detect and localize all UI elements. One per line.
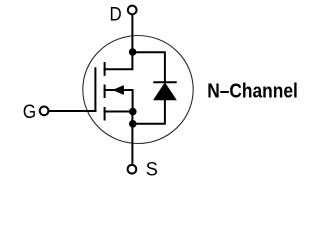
diode bottom wire [133, 99, 165, 124]
source wire [131, 112, 133, 164]
svg-text:S: S [146, 159, 158, 181]
source connection wire [104, 111, 133, 113]
body diode D1 cathode bar [153, 81, 176, 83]
diode top wire [133, 52, 165, 83]
drain terminal circle [128, 6, 137, 15]
svg-text:N–Channel: N–Channel [207, 80, 298, 102]
svg-text:G: G [23, 101, 36, 123]
body arrow head [112, 85, 124, 95]
gate wire [49, 110, 97, 112]
svg-text:D: D [110, 3, 122, 25]
source junction dot [129, 108, 137, 116]
channel segment source region [104, 107, 106, 121]
body diode D1 anode triangle [154, 83, 176, 100]
gate terminal circle [40, 107, 49, 116]
channel segment drain region [104, 62, 106, 76]
junction dot drain-diode [129, 48, 137, 56]
gate plate [94, 67, 96, 112]
diode junction dot [129, 120, 137, 128]
channel segment body region [104, 85, 106, 99]
transistor envelope circle [83, 36, 193, 144]
source terminal circle [128, 165, 137, 174]
drain wire [104, 14, 133, 69]
body connection wire [104, 90, 133, 112]
